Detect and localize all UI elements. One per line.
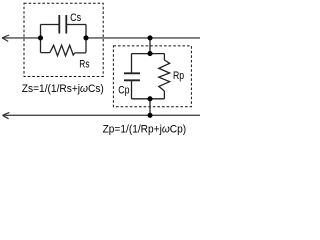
wire Cs top rail bbox=[41, 24, 87, 26]
resistor Rs bbox=[50, 45, 75, 56]
node bottom center bbox=[147, 113, 152, 118]
svg-text:Rs: Rs bbox=[79, 59, 90, 71]
wire center drop upper bbox=[149, 38, 151, 54]
svg-text:Rp: Rp bbox=[173, 70, 184, 82]
capacitor Cp bbox=[124, 73, 140, 80]
wire right branch Zs bbox=[85, 25, 87, 53]
node left of Zs bbox=[38, 35, 43, 40]
wire left branch Zs bbox=[40, 25, 42, 53]
wire top-right segment bbox=[86, 37, 200, 39]
Zp dashed box bbox=[113, 46, 191, 107]
wire Zp bottom rail bbox=[132, 98, 165, 100]
svg-text:Zp=1/(1/Rp+jωCp): Zp=1/(1/Rp+jωCp) bbox=[103, 124, 187, 136]
svg-text:Cs: Cs bbox=[70, 12, 82, 24]
wire Cp lower lead bbox=[131, 80, 133, 99]
wire center drop lower bbox=[149, 99, 151, 116]
Zs dashed box bbox=[24, 3, 103, 76]
node right of Zs bbox=[83, 35, 88, 40]
arrowhead bottom wire bbox=[3, 112, 10, 118]
node Zp top rail bbox=[147, 51, 152, 56]
svg-text:Cp: Cp bbox=[118, 85, 129, 97]
node Zp bottom rail bbox=[147, 96, 152, 101]
wire Rp lower lead bbox=[163, 91, 165, 99]
wire bottom bbox=[3, 114, 200, 116]
wire top-left segment bbox=[2, 37, 40, 39]
svg-text:Zs=1/(1/Rs+jωCs): Zs=1/(1/Rs+jωCs) bbox=[22, 83, 104, 95]
wire Rs bottom rail bbox=[41, 52, 87, 54]
wire Zp top rail bbox=[132, 53, 165, 55]
wire Rp upper lead bbox=[163, 54, 165, 60]
node top center bbox=[147, 35, 152, 40]
arrowhead top wire bbox=[2, 35, 9, 41]
wire Cp upper lead bbox=[131, 54, 133, 74]
resistor Rp bbox=[159, 60, 170, 91]
capacitor Cs bbox=[59, 15, 66, 34]
